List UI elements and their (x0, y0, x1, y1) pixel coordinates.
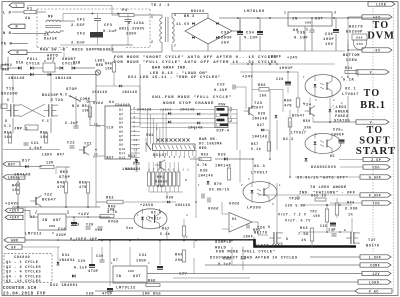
svg-text:10k: 10k (12, 188, 20, 193)
svg-text:2: 2 (241, 184, 243, 187)
svg-text:11: 11 (94, 153, 98, 156)
svg-text:1.0nF: 1.0nF (29, 147, 43, 151)
svg-text:3: 3 (67, 210, 69, 213)
svg-text:V AC: V AC (369, 289, 379, 293)
svg-text:RED: RED (199, 147, 207, 151)
svg-text:T26: T26 (257, 227, 266, 231)
svg-text:47K: 47K (284, 105, 292, 109)
svg-text:NOIS SUPPRESSER: NOIS SUPPRESSER (72, 49, 114, 53)
svg-text:C34: C34 (246, 32, 255, 36)
svg-text:C23: C23 (217, 83, 225, 87)
svg-text:89.8k/1%: 89.8k/1% (297, 176, 319, 181)
svg-text:1N4148: 1N4148 (92, 91, 108, 95)
svg-text:F.OFF: F.OFF (369, 193, 382, 197)
svg-text:10K: 10K (105, 67, 112, 71)
svg-text:MSW: MSW (219, 102, 226, 106)
svg-text:R68: R68 (148, 280, 156, 284)
svg-text:2: 2 (156, 128, 158, 131)
svg-text:4: 4 (134, 135, 136, 138)
svg-text:RED: RED (2, 69, 10, 73)
svg-text:K5: K5 (330, 154, 335, 158)
svg-text:Z: Z (253, 237, 255, 241)
svg-text:Vss: Vss (126, 227, 134, 231)
svg-text:GREEN: GREEN (335, 111, 349, 115)
svg-text:1N4148: 1N4148 (8, 77, 25, 81)
svg-text:BAR GRAF IND.: BAR GRAF IND. (152, 67, 188, 71)
svg-text:2: 2 (186, 236, 188, 239)
svg-text:0Vdd: 0Vdd (229, 202, 240, 207)
svg-text:4: 4 (341, 76, 343, 79)
svg-text:OUT: OUT (133, 275, 141, 279)
svg-text:1N4146: 1N4146 (198, 175, 214, 179)
svg-text:Q7: Q7 (119, 135, 123, 138)
svg-text:9: 9 (185, 179, 187, 182)
svg-text:C19: C19 (72, 224, 80, 228)
svg-text:Q2 - 2 CYCLES: Q2 - 2 CYCLES (6, 266, 41, 270)
svg-text:SW1: SW1 (146, 134, 154, 138)
svg-text:DZ8S5C5V6: DZ8S5C5V6 (311, 166, 337, 170)
svg-text:9: 9 (134, 107, 136, 110)
svg-text:USh: USh (372, 165, 380, 169)
svg-text:Q4: Q4 (119, 122, 123, 125)
svg-text:BC547: BC547 (42, 199, 56, 203)
svg-text:TVO: TVO (372, 201, 380, 205)
svg-text:Q4 - 8 CYCLES: Q4 - 8 CYCLES (6, 275, 41, 279)
svg-text:LM7812: LM7812 (25, 233, 42, 237)
svg-text:5: 5 (230, 116, 232, 119)
svg-text:STOP: STOP (59, 176, 70, 180)
svg-text:12K: 12K (46, 162, 54, 166)
svg-text:100F: 100F (243, 236, 253, 240)
svg-text:D27: D27 (257, 124, 265, 128)
svg-text:0F: 0F (11, 245, 16, 249)
svg-text:GND: GND (305, 22, 312, 25)
svg-text:RED: RED (60, 171, 69, 175)
svg-text:G: G (268, 225, 270, 229)
svg-text:C22: C22 (67, 142, 75, 146)
svg-text:LISB: LISB (376, 2, 386, 6)
svg-text:3: 3 (315, 99, 317, 102)
svg-text:C18: C18 (58, 228, 66, 232)
svg-text:COUNTER.SCH: COUNTER.SCH (3, 287, 37, 291)
svg-text:T19: T19 (6, 88, 15, 92)
svg-text:Q1 - 1 CYCLE: Q1 - 1 CYCLE (6, 261, 39, 265)
svg-text:BR.3: BR.3 (184, 15, 195, 19)
svg-text:3: 3 (134, 125, 136, 128)
svg-text:2: 2 (333, 99, 335, 102)
svg-text:LOAD: LOAD (369, 280, 379, 284)
svg-text:12: 12 (134, 144, 138, 147)
svg-text:TO: TO (364, 88, 381, 99)
svg-text:0.1UF: 0.1UF (214, 89, 228, 93)
svg-text:4: 4 (341, 129, 343, 132)
svg-text:CF1: CF1 (77, 19, 86, 23)
svg-text:12V: 12V (372, 272, 380, 276)
svg-text:CD4040: CD4040 (115, 103, 130, 107)
svg-text:BS170: BS170 (366, 245, 380, 249)
svg-text:C28: C28 (86, 293, 94, 297)
svg-text:10: 10 (94, 123, 98, 126)
svg-text:Q2: Q2 (119, 113, 123, 116)
svg-text:BS250D: BS250D (1, 93, 18, 97)
svg-text:5.1k: 5.1k (160, 232, 170, 237)
svg-text:230V: 230V (126, 33, 137, 37)
svg-text:D30: D30 (166, 197, 174, 201)
svg-text:GND: GND (49, 225, 56, 228)
svg-text:+24VO: +24VO (140, 204, 154, 208)
svg-text:10K: 10K (82, 110, 90, 114)
svg-text:C21: C21 (31, 142, 39, 146)
svg-text:R56: R56 (258, 84, 266, 88)
svg-text:LM79L12: LM79L12 (116, 287, 136, 291)
svg-text:5.1K: 5.1K (343, 79, 354, 83)
svg-text:D33: D33 (128, 155, 136, 159)
svg-text:1: 1 (137, 214, 139, 217)
svg-text:TO: TO (367, 125, 384, 136)
svg-text:1: 1 (198, 184, 200, 187)
svg-text:U4: U4 (109, 101, 115, 105)
svg-text:7.5K: 7.5K (298, 233, 309, 237)
svg-text:1N4031: 1N4031 (59, 259, 75, 263)
svg-text:+9V: +9V (373, 15, 381, 19)
svg-text:STOP: STOP (66, 88, 77, 92)
svg-text:DISCONNECT LOAD AFTER 16 CYCLE: DISCONNECT LOAD AFTER 16 CYCLES (210, 257, 298, 261)
svg-text:D29: D29 (218, 154, 226, 158)
svg-text:14D23: 14D23 (160, 109, 172, 112)
svg-text:T20: T20 (55, 99, 64, 103)
svg-text:36k: 36k (304, 125, 312, 130)
svg-text:Vref. 7.2 V: Vref. 7.2 V (278, 213, 307, 218)
svg-text:1N4148: 1N4148 (55, 77, 72, 81)
svg-text:DC:10ESMA: DC:10ESMA (199, 143, 223, 147)
svg-text:LM78L09: LM78L09 (244, 10, 265, 14)
svg-text:Q12: Q12 (119, 157, 126, 160)
svg-text:4: 4 (52, 60, 54, 63)
svg-text:1N4148: 1N4148 (252, 136, 268, 140)
svg-text:15k: 15k (259, 93, 267, 98)
svg-text:1N4148: 1N4148 (175, 204, 191, 208)
svg-text:-9V: -9V (373, 48, 381, 52)
svg-text:COMF: COMF (370, 263, 380, 267)
svg-text:11.6V: 11.6V (176, 23, 190, 27)
svg-text:3: 3 (230, 120, 232, 123)
svg-text:NONE STOP CHANGE: NONE STOP CHANGE (163, 102, 214, 106)
svg-text:TP1: TP1 (289, 198, 297, 202)
svg-text:BS170: BS170 (349, 26, 363, 30)
svg-text:Q9: Q9 (119, 143, 123, 146)
svg-text:C36: C36 (325, 33, 334, 37)
svg-text:OC.3: OC.3 (254, 165, 265, 169)
svg-text:1%: 1% (301, 239, 307, 243)
svg-text:L.OFF: L.OFF (369, 255, 382, 259)
svg-text:MM1: MM1 (157, 176, 165, 180)
svg-text:OC.4: OC.4 (151, 212, 162, 216)
svg-text:R47: R47 (57, 154, 65, 158)
svg-text:25V: 25V (221, 42, 230, 46)
svg-text:BOTTOM: BOTTOM (343, 54, 360, 58)
svg-text:R50: R50 (79, 182, 87, 186)
svg-text:N Ø: N Ø (3, 31, 12, 36)
svg-text:BE170: BE170 (254, 232, 268, 236)
svg-text:T22: T22 (44, 194, 53, 198)
svg-text:R60: R60 (284, 99, 292, 103)
svg-text:C24: C24 (276, 78, 284, 82)
svg-text:8 7 6 5 4 3 1 1 1: 8 7 6 5 4 3 1 1 1 (148, 168, 190, 171)
svg-text:FOR MODE "SHORT CYCLE" AUTO OF: FOR MODE "SHORT CYCLE" AUTO OFF AFTER 0.… (114, 55, 277, 60)
svg-text:5.1k: 5.1k (251, 147, 261, 152)
svg-text:CLR: CLR (107, 126, 114, 130)
svg-text:C26: C26 (320, 224, 327, 228)
svg-text:CF2: CF2 (77, 33, 86, 37)
svg-text:S.C: S.C (4, 124, 11, 128)
svg-text:DIP-4: DIP-4 (217, 130, 230, 134)
svg-text:DaJaK: DaJaK (44, 38, 58, 42)
svg-text:100 Ohm: 100 Ohm (142, 292, 161, 297)
svg-text:L: L (16, 4, 19, 8)
svg-text:RED: RED (96, 64, 104, 68)
svg-text:23.04.2018 FYP: 23.04.2018 FYP (3, 293, 46, 297)
svg-text:RST: RST (107, 155, 114, 159)
svg-text:LED3: LED3 (336, 106, 347, 110)
svg-text:OC.1: OC.1 (345, 88, 356, 92)
svg-text:4.7K: 4.7K (197, 164, 208, 168)
svg-text:3: 3 (303, 102, 305, 105)
svg-text:3: 3 (334, 11, 336, 15)
svg-text:D31: D31 (62, 254, 70, 258)
svg-text:2.2nF: 2.2nF (65, 122, 79, 126)
svg-text:1: 1 (303, 76, 305, 79)
svg-text:10k: 10k (157, 184, 165, 189)
svg-text:R65: R65 (108, 206, 116, 210)
svg-text:D: D (286, 237, 288, 241)
svg-text:START: START (356, 145, 396, 157)
svg-text:TP2: TP2 (310, 210, 317, 214)
svg-text:Q6: Q6 (119, 130, 123, 133)
svg-text:+24V: +24V (287, 57, 298, 61)
svg-text:220UF: 220UF (218, 37, 232, 41)
svg-text:3: 3 (148, 262, 150, 265)
svg-text:Q1: Q1 (119, 109, 123, 112)
svg-text:0.1uF: 0.1uF (74, 267, 88, 271)
svg-text:U5: U5 (30, 216, 35, 220)
svg-text:FULL: FULL (27, 58, 38, 62)
svg-text:D6: D6 (232, 217, 237, 221)
svg-text:R67: R67 (162, 228, 170, 232)
svg-text:Q5: Q5 (119, 126, 123, 129)
svg-text:2.5SF: 2.5SF (71, 24, 85, 28)
svg-text:AN11.3VA9V: AN11.3VA9V (119, 28, 145, 32)
svg-text:T23: T23 (254, 102, 263, 106)
svg-text:T27: T27 (368, 239, 376, 243)
svg-text:IN: IN (42, 219, 48, 223)
svg-text:7: 7 (174, 44, 176, 48)
svg-text:0.125A: 0.125A (128, 22, 145, 26)
svg-text:065: 065 (356, 43, 363, 46)
svg-text:LED9: LED9 (42, 154, 52, 158)
svg-text:4: 4 (186, 214, 188, 217)
svg-text:1: 1 (151, 15, 153, 19)
svg-text:1N4148: 1N4148 (137, 108, 152, 112)
svg-text:Q3 - 4 CYCLES: Q3 - 4 CYCLES (6, 271, 41, 275)
svg-text:+24VO: +24VO (5, 203, 19, 207)
svg-text:CF3: CF3 (104, 24, 113, 28)
svg-text:1%: 1% (348, 214, 354, 218)
svg-text:2: 2 (52, 232, 54, 235)
svg-text:+24V: +24V (9, 216, 19, 220)
svg-text:R70: R70 (214, 183, 222, 187)
svg-text:DVM: DVM (367, 31, 394, 42)
svg-text:L Ø: L Ø (3, 11, 12, 16)
svg-text:BAR GR.: BAR GR. (199, 138, 218, 142)
svg-text:OUT: OUT (315, 18, 324, 22)
svg-text:1: 1 (284, 11, 286, 15)
svg-text:"AUTO OFF": "AUTO OFF" (320, 176, 348, 181)
svg-text:R66: R66 (175, 254, 183, 258)
svg-text:-12V: -12V (176, 273, 187, 277)
svg-text:2.SP: 2.SP (371, 158, 381, 162)
svg-text:BR.1: BR.1 (360, 100, 386, 111)
svg-text:RST: RST (8, 162, 16, 166)
svg-text:A.OFF: A.OFF (369, 175, 382, 179)
svg-text:D35: D35 (200, 170, 208, 174)
svg-text:D1A: D1A (16, 62, 24, 66)
svg-text:16V: 16V (325, 43, 334, 47)
svg-text:S: S (7, 98, 9, 102)
svg-text:1: 1 (111, 262, 113, 265)
svg-text:4TUF: 4TUF (102, 293, 113, 297)
svg-text:-: - (231, 224, 233, 228)
svg-text:D17: D17 (22, 160, 31, 164)
svg-text:7: 7 (134, 112, 136, 115)
svg-text:R53: R53 (201, 154, 209, 158)
svg-text:V.: V. (370, 70, 375, 74)
svg-text:D21 LED 15-11 - "END OF CYCLES: D21 LED 15-11 - "END OF CYCLES" (128, 75, 221, 80)
svg-text:Vref. 6.7V: Vref. 6.7V (285, 219, 311, 224)
svg-text:R57: R57 (251, 143, 259, 147)
svg-text:D: D (5, 119, 7, 123)
svg-text:6: 6 (134, 116, 136, 119)
svg-text:C30: C30 (96, 255, 104, 259)
svg-text:GND: GND (128, 270, 134, 273)
svg-text:C25: C25 (333, 129, 341, 133)
svg-text:0.1UF: 0.1UF (244, 37, 258, 41)
svg-text:D1B: D1B (73, 62, 81, 66)
svg-text:Vss: Vss (95, 229, 103, 233)
svg-text:14: 14 (134, 148, 138, 151)
svg-text:2: 2 (151, 40, 153, 44)
svg-text:C29: C29 (78, 260, 86, 264)
svg-text:S: S (51, 98, 53, 102)
svg-text:LED2: LED2 (2, 64, 12, 68)
svg-text:PE Ø: PE Ø (1, 42, 12, 47)
svg-text:1: 1 (36, 210, 38, 213)
svg-text:D32 1N4001: D32 1N4001 (50, 284, 78, 288)
svg-text:LTV817: LTV817 (146, 218, 162, 222)
svg-text:LTV817: LTV817 (251, 172, 268, 176)
svg-text:+26V: +26V (9, 209, 19, 213)
svg-text:TO LED6 ANODE: TO LED6 ANODE (310, 186, 347, 190)
svg-text:OUT: OUT (53, 219, 62, 223)
svg-text:13: 13 (134, 139, 138, 142)
svg-text:GND: GND (11, 238, 19, 242)
svg-text:G: G (344, 229, 346, 232)
svg-text:2: 2 (134, 130, 136, 133)
svg-text:4TUF: 4TUF (88, 270, 99, 274)
svg-text:Q10: Q10 (119, 148, 126, 151)
svg-text:BC547: BC547 (153, 154, 167, 158)
svg-text:C31: C31 (139, 254, 147, 258)
svg-text:R49: R49 (57, 182, 65, 186)
svg-text:1N4148: 1N4148 (180, 108, 195, 112)
svg-text:666: 666 (356, 37, 363, 40)
svg-text:4: 4 (248, 178, 250, 181)
svg-text:2: 2 (341, 102, 343, 105)
svg-text:JMP.1: JMP.1 (14, 128, 28, 132)
svg-text:R46: R46 (105, 62, 112, 66)
svg-text:LTV817: LTV817 (342, 93, 359, 97)
svg-text:MAG SW.-B: MAG SW.-B (40, 49, 66, 53)
svg-text:22UF: 22UF (56, 234, 67, 238)
svg-text:1: 1 (303, 129, 305, 132)
svg-text:U7: U7 (113, 259, 118, 263)
svg-text:Q3: Q3 (119, 117, 123, 120)
svg-text:7: 7 (230, 111, 232, 114)
svg-text:100UF: 100UF (268, 56, 282, 60)
svg-text:H: H (17, 51, 20, 55)
svg-text:LP390: LP390 (247, 207, 261, 211)
svg-text:10UF: 10UF (136, 260, 147, 264)
svg-text:N.C.: N.C. (60, 94, 70, 98)
svg-text:R48: R48 (12, 185, 20, 189)
svg-text:8.98K: 8.98K (345, 208, 358, 212)
svg-text:TO: TO (373, 20, 390, 31)
svg-text:MF: MF (48, 16, 54, 20)
svg-text:FOR MODE "FULL CYCLE": FOR MODE "FULL CYCLE" (216, 250, 275, 255)
svg-text:C33: C33 (221, 32, 230, 36)
svg-text:0.1uF: 0.1uF (103, 30, 117, 34)
svg-text:IN: IN (292, 18, 298, 22)
svg-text:R59: R59 (303, 120, 311, 124)
svg-text:Q11: Q11 (119, 152, 126, 155)
svg-text:RA&&0: RA&&0 (155, 181, 168, 185)
svg-text:0Vdd: 0Vdd (108, 220, 119, 225)
svg-text:LTV817: LTV817 (291, 132, 307, 136)
svg-text:Q8: Q8 (119, 139, 123, 142)
svg-text:CD4040: CD4040 (14, 256, 30, 260)
svg-text:SIMPLE: SIMPLE (215, 241, 232, 245)
svg-text:IN: IN (116, 275, 121, 279)
svg-text:2A: 2A (25, 17, 31, 21)
svg-text:BC547: BC547 (292, 114, 305, 118)
svg-text:"LOAD OFF": "LOAD OFF" (255, 244, 283, 249)
svg-text:F4: F4 (122, 9, 128, 13)
svg-text:FUSE2: FUSE2 (335, 115, 349, 119)
svg-text:R63: R63 (300, 227, 308, 231)
svg-text:2: 2 (306, 28, 308, 32)
svg-text:2: 2 (44, 60, 46, 63)
svg-text:OC.2: OC.2 (283, 138, 294, 142)
svg-text:C35: C35 (297, 32, 306, 36)
svg-text:F1: F1 (27, 8, 33, 12)
svg-text:F.C: F.C (42, 119, 49, 123)
svg-text:0.1UF: 0.1UF (294, 37, 308, 41)
svg-text:TR.2 .3: TR.2 .3 (151, 4, 170, 8)
svg-text:89.8K/1%: 89.8K/1% (209, 188, 230, 193)
svg-text:100: 100 (313, 214, 320, 218)
svg-text:0Vdd: 0Vdd (208, 207, 219, 212)
svg-text:9: 9 (230, 107, 232, 110)
svg-text:VIEW: VIEW (346, 59, 357, 63)
